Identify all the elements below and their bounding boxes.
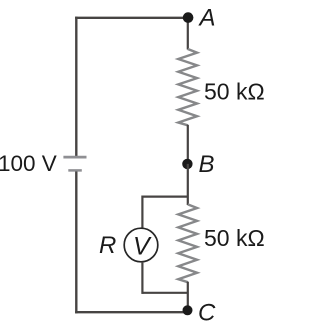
wire: bottom horizontal to node C: [75, 311, 188, 313]
wire: left vertical lower (battery to bottom corner): [75, 172, 77, 314]
node C: [183, 305, 193, 315]
svg-text:R: R: [99, 232, 116, 259]
node A: [183, 12, 194, 23]
wire: top horizontal from battery branch to node A: [75, 17, 188, 19]
battery V1 100 V: long plate: [63, 156, 86, 159]
svg-text:50 kΩ: 50 kΩ: [204, 225, 265, 251]
resistor R1 50 kOhm zigzag: [178, 49, 197, 125]
wire: voltmeter branch top horizontal: [142, 196, 187, 198]
wire: voltmeter branch left upper vertical: [141, 196, 143, 229]
node B: [182, 159, 192, 169]
voltmeter R (meter body): [124, 228, 158, 262]
battery V1 100 V: short plate: [68, 169, 82, 172]
wire: voltmeter branch bottom horizontal: [142, 292, 187, 294]
resistor R2 50 kOhm zigzag: [178, 204, 197, 282]
svg-text:A: A: [198, 5, 216, 32]
wire: voltmeter branch left lower vertical: [141, 262, 143, 294]
wire: resistor R1 to node B: [187, 125, 189, 164]
svg-text:V: V: [133, 233, 152, 261]
svg-text:50 kΩ: 50 kΩ: [204, 79, 265, 105]
wire: left vertical upper (top corner to battery): [75, 17, 77, 157]
svg-text:100 V: 100 V: [0, 151, 57, 176]
svg-text:B: B: [199, 151, 215, 178]
wire: node A down to resistor R1: [187, 18, 189, 50]
svg-text:C: C: [198, 300, 216, 327]
wire: resistor R2 to node C: [187, 282, 189, 311]
wire: node B down to resistor R2: [187, 164, 189, 205]
